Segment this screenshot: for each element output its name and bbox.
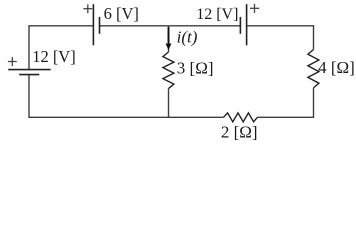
svg-text:2 [Ω]: 2 [Ω] — [221, 122, 258, 141]
svg-text:12 [V]: 12 [V] — [196, 6, 238, 23]
wire: middle branch (top junction down to 3-ohm resistor) — [168, 26, 170, 52]
wire: 12V battery to top-right corner down to 4-ohm resistor — [247, 26, 314, 50]
wire: left battery bottom to bottom-left corner to 2-ohm resistor — [29, 75, 223, 118]
battery V2 short plate — [99, 17, 101, 34]
battery V3 short plate (12 V top-right source) — [239, 17, 241, 34]
wire: 6V battery to 12V battery (top middle segment) — [100, 25, 241, 27]
current arrow i(t) — [166, 27, 171, 50]
svg-text:12 [V]: 12 [V] — [32, 47, 76, 66]
resistor R2 (4 ohm, right branch) — [308, 50, 319, 88]
wire: top-left corner to 6V battery long plate — [29, 26, 93, 70]
battery V1 long plate (12 V left source, positive) — [8, 69, 50, 71]
svg-text:i(t): i(t) — [177, 28, 198, 47]
resistor R1 (3 ohm, middle branch) — [163, 52, 174, 89]
wire: middle branch (3-ohm resistor to bottom junction) — [168, 89, 170, 118]
battery V1 plus sign — [8, 57, 17, 66]
wire: 2-ohm resistor to bottom-right corner up to 4-ohm resistor — [257, 88, 313, 117]
svg-text:6 [V]: 6 [V] — [104, 4, 139, 23]
battery V1 short plate — [19, 74, 39, 76]
battery V2 plus sign — [83, 4, 92, 13]
svg-text:4 [Ω]: 4 [Ω] — [318, 58, 355, 77]
resistor R3 (2 ohm, bottom branch) — [223, 113, 257, 122]
battery V3 plus sign — [250, 4, 259, 13]
battery V3 long plate (positive) — [246, 4, 248, 45]
svg-text:3 [Ω]: 3 [Ω] — [177, 58, 214, 77]
battery V2 long plate (6 V top source, positive) — [92, 4, 94, 45]
